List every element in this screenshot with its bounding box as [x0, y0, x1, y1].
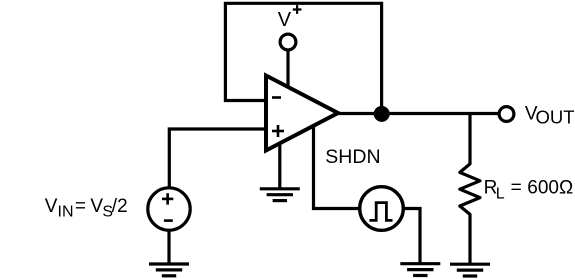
svg-text:VOUT: VOUT [525, 104, 575, 128]
svg-text:V: V [278, 9, 292, 31]
svg-text:SHDN: SHDN [325, 146, 380, 168]
